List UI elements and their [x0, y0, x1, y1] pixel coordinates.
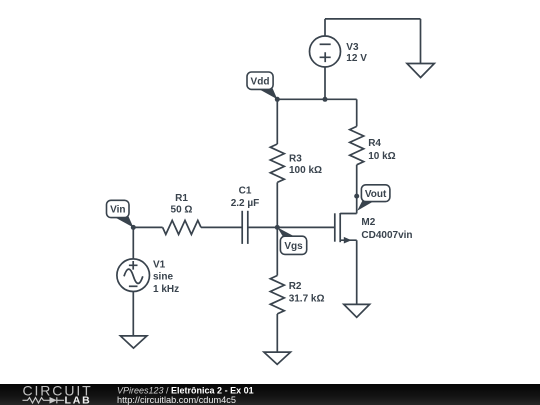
junction dot Vin node — [131, 225, 136, 230]
resistor R2 zigzag — [270, 276, 284, 314]
svg-text:VPirees123 / Eletrônica 2 - Ex: VPirees123 / Eletrônica 2 - Ex 01 — [117, 385, 254, 395]
wire V3 top lead — [324, 19, 326, 36]
wire C1 to Vgs node — [248, 226, 277, 228]
ground right (V3 return) — [407, 64, 434, 78]
svg-text:http://circuitlab.com/cdum4c5: http://circuitlab.com/cdum4c5 — [117, 395, 236, 405]
resistor R3 zigzag — [270, 144, 284, 182]
wire M2 source down — [356, 240, 358, 304]
node pointer Vdd — [259, 87, 278, 100]
svg-text:Vgs: Vgs — [284, 241, 303, 252]
wire Vdd rail — [277, 98, 356, 100]
svg-text:R2: R2 — [289, 281, 302, 292]
svg-text:50 Ω: 50 Ω — [171, 205, 193, 216]
capacitor C1 left plate — [241, 211, 243, 244]
svg-text:Vin: Vin — [110, 205, 125, 216]
svg-text:V3: V3 — [346, 42, 359, 53]
node box Vin — [107, 200, 130, 217]
wire V3 bottom to Vdd rail — [324, 67, 326, 99]
svg-text:100 kΩ: 100 kΩ — [289, 165, 322, 176]
resistor R4 zigzag — [350, 126, 364, 164]
logo diode arrow — [50, 397, 57, 404]
wire R3 bottom lead — [276, 182, 278, 227]
M2 gate lead wire — [277, 226, 335, 228]
wire R4 bottom to drain — [356, 165, 358, 214]
svg-text:31.7 kΩ: 31.7 kΩ — [289, 294, 325, 305]
M2 source arrow — [344, 237, 352, 244]
wire Vin node to R1 — [133, 226, 162, 228]
ground R2 — [264, 352, 291, 364]
wire R2 top lead — [276, 227, 278, 275]
node pointer Vgs — [277, 227, 294, 236]
V1 minus mark — [129, 285, 138, 287]
wire R2 bottom lead — [276, 314, 278, 352]
M2 source segment — [340, 239, 357, 241]
wire top rail V3 to ground — [325, 18, 421, 20]
svg-text:C1: C1 — [239, 186, 252, 197]
capacitor C1 right plate — [247, 211, 249, 244]
logo resistor squiggle — [23, 397, 65, 403]
svg-text:sine: sine — [153, 272, 173, 283]
resistor R1 zigzag — [163, 220, 201, 234]
svg-text:10 kΩ: 10 kΩ — [368, 151, 395, 162]
V1 sine wave — [124, 269, 143, 283]
wire R1 to C1 — [201, 226, 242, 228]
footer bar — [0, 384, 540, 405]
node pointer Vin — [115, 215, 134, 228]
svg-text:2.2 µF: 2.2 µF — [231, 198, 260, 209]
V3 plus mark — [320, 52, 331, 62]
wire Vin node to V1 — [132, 227, 134, 259]
wire right ground lead — [420, 19, 422, 64]
junction dot Vdd node — [275, 97, 280, 102]
svg-text:R4: R4 — [368, 138, 381, 149]
V1 plus mark — [129, 261, 138, 270]
svg-text:Vout: Vout — [365, 189, 387, 200]
svg-text:V1: V1 — [153, 260, 166, 271]
svg-text:R1: R1 — [175, 193, 188, 204]
node box Vgs — [280, 236, 306, 254]
transistor M2 channel bar — [339, 213, 341, 242]
junction dot Vgs node — [275, 225, 280, 230]
svg-text:1 kHz: 1 kHz — [153, 284, 179, 295]
wire R3 top lead — [276, 99, 278, 144]
M2 drain segment — [340, 213, 357, 215]
junction dot Vdd rail / V3 — [323, 97, 328, 102]
voltage source V3 circle — [310, 36, 341, 67]
svg-text:Vdd: Vdd — [251, 77, 270, 88]
svg-text:12 V: 12 V — [346, 53, 367, 64]
node pointer Vout — [357, 200, 373, 211]
ground M2 source — [344, 304, 370, 317]
svg-text:LAB: LAB — [65, 394, 92, 405]
voltage source V1 circle — [117, 259, 150, 292]
node box Vout — [361, 185, 390, 202]
transistor M2 gate bar — [334, 213, 336, 241]
wire R4 top lead — [356, 99, 358, 126]
V3 minus mark — [320, 43, 331, 45]
svg-text:M2: M2 — [361, 217, 375, 228]
junction dot Vout node — [354, 194, 359, 199]
ground V1 — [120, 336, 146, 348]
svg-text:CD4007vin: CD4007vin — [361, 230, 412, 241]
svg-text:R3: R3 — [289, 153, 302, 164]
node box Vdd — [247, 72, 273, 89]
wire V1 bottom lead — [132, 292, 134, 336]
